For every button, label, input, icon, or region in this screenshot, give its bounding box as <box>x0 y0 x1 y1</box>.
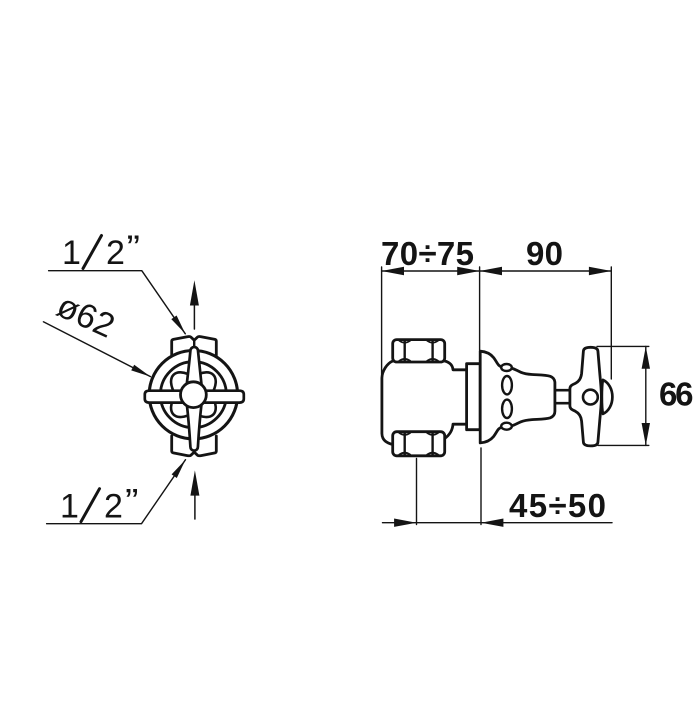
top nut chamfer arcs <box>399 341 438 361</box>
extension line 66 bottom <box>598 444 649 446</box>
arrow 70-75 left <box>382 267 404 275</box>
extension line bottom wall (45-50) <box>480 448 482 525</box>
top spoke <box>187 347 202 386</box>
dimension line 66 <box>645 346 647 445</box>
flow arrow below valve <box>190 470 199 519</box>
arrow 90 left <box>480 267 502 275</box>
slash of 1/2 top <box>83 236 102 269</box>
leader line 1/2 inch top <box>49 271 186 334</box>
escutcheon ornament ellipse lower <box>502 400 512 418</box>
bottom nut chamfer arcs <box>399 433 438 455</box>
arrow 66 top <box>642 346 650 368</box>
escutcheon bead top <box>501 364 512 371</box>
horizontal spoke bar <box>145 391 244 403</box>
side view: handle hub <box>583 390 598 405</box>
side view: valve stem <box>552 390 570 403</box>
svg-text:1: 1 <box>62 234 81 272</box>
extension line right (90) <box>610 267 612 379</box>
svg-text:”: ” <box>127 229 141 267</box>
svg-text:66: 66 <box>659 376 694 413</box>
escutcheon ornament ellipse upper <box>502 376 512 394</box>
front view: spoke web pillow <box>171 372 216 417</box>
front view: top hex nut <box>172 337 217 356</box>
leader arrowhead top <box>171 316 185 334</box>
front view: bottom hex nut <box>172 436 217 456</box>
bottom hex nut facet seam <box>193 449 195 452</box>
side view: escutcheon bell <box>480 351 555 443</box>
arrow 45-50 right (outside) <box>481 519 503 527</box>
side view: valve body <box>382 361 470 445</box>
arrow 66 bottom <box>642 423 650 445</box>
svg-text:2: 2 <box>104 487 123 525</box>
extension line left (70-75) <box>381 267 383 374</box>
svg-text:70÷75: 70÷75 <box>381 235 474 272</box>
dimension line bottom <box>383 522 613 524</box>
top nut facet lines <box>405 340 433 361</box>
slash of 1/2 bottom <box>81 489 100 522</box>
svg-text:1: 1 <box>60 487 79 525</box>
front view: hub circle <box>181 382 207 408</box>
arrow 90 right <box>589 267 611 275</box>
dimension line top <box>382 270 612 272</box>
arrow 70-75 right <box>457 267 479 275</box>
side view: top hex nut <box>393 340 445 362</box>
escutcheon bead bottom <box>501 423 512 430</box>
svg-text:90: 90 <box>526 235 563 272</box>
side view: cross handle <box>570 347 602 446</box>
svg-text:45÷50: 45÷50 <box>509 487 606 524</box>
top hex nut facet seam <box>193 340 195 347</box>
side view: mounting flange rectangle <box>467 364 481 430</box>
side view: bottom hex nut <box>393 432 445 456</box>
arrow 45-50 left (outside) <box>394 519 416 527</box>
leader arrowhead dia62 <box>131 365 150 377</box>
leader arrowhead bottom <box>172 460 186 478</box>
front view: rim inner ring <box>160 362 226 428</box>
bottom nut facet lines <box>405 433 433 455</box>
flow arrow above valve <box>190 280 199 329</box>
side view: handle front arm lobe <box>602 380 613 414</box>
leader line diameter 62 <box>43 322 150 377</box>
front view: handwheel outer rim circle <box>149 351 237 439</box>
front view: cross handle spokes <box>145 347 244 451</box>
extension line bottom left (45-50) <box>416 459 418 525</box>
extension line wall (70-75 / 90) <box>479 267 481 350</box>
svg-text:”: ” <box>125 482 139 520</box>
leader line 1/2 inch bottom <box>47 460 186 524</box>
bottom spoke <box>187 404 202 451</box>
extension line 66 top <box>597 345 649 347</box>
svg-text:2: 2 <box>106 234 125 272</box>
